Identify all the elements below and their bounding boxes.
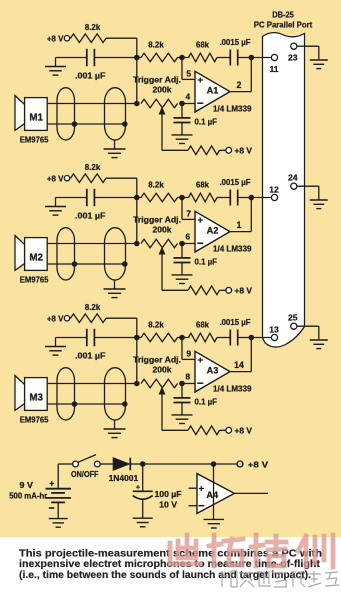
wire A4 output — [234, 492, 268, 494]
junction filter cap — [140, 461, 146, 467]
pin A4 inverting stub — [189, 505, 198, 507]
svg-text:.0015 µF: .0015 µF — [220, 38, 251, 47]
wire supply corner M1 channel — [106, 37, 137, 39]
capacitor 0.1uF M1 channel — [181, 104, 183, 118]
wire cap to output node M1 channel — [238, 57, 252, 59]
svg-text:9: 9 — [186, 348, 191, 358]
wire cap to output node M2 channel — [238, 197, 252, 199]
svg-text:+8 V: +8 V — [47, 314, 64, 324]
svg-text:8.2k: 8.2k — [148, 180, 164, 190]
wire plus-input riser M3 channel — [181, 338, 183, 360]
ground pin 23 — [310, 59, 328, 61]
op-amp A1 comparator 1/4 LM339 — [195, 71, 230, 112]
svg-text:.001 µF: .001 µF — [75, 350, 106, 360]
junction plus-input node M3 channel — [179, 335, 185, 341]
pin 1 comparator output wire — [230, 231, 251, 233]
svg-text:2: 2 — [237, 80, 242, 90]
connector J1 DB-25 PC parallel port — [263, 33, 305, 347]
svg-text:4: 4 — [185, 92, 190, 102]
capacitor .001uF M3 channel — [86, 329, 88, 347]
svg-text:M1: M1 — [29, 113, 43, 124]
node +8V wiper pullup M3 channel — [226, 427, 232, 433]
watermark pink characters — [170, 535, 333, 567]
junction output node M2 channel — [249, 195, 255, 201]
wire rail — [143, 463, 214, 465]
capacitor .001uF M1 channel — [86, 49, 88, 67]
svg-text:+8 V: +8 V — [47, 34, 64, 44]
svg-text:500 mA-hr: 500 mA-hr — [9, 490, 48, 500]
wire mic return lead M2 channel — [47, 263, 125, 265]
svg-text:+: + — [49, 479, 54, 489]
wire output node to parallel port pin 11 — [251, 57, 271, 59]
microphone M3 EM9765 — [15, 376, 25, 411]
resistor wiper pullup M1 channel — [188, 146, 219, 155]
resistor 68k M2 channel — [189, 193, 218, 202]
svg-text:A2: A2 — [207, 226, 219, 236]
svg-text:68k: 68k — [196, 40, 209, 50]
wire pin 24 to ground — [297, 185, 319, 187]
wire output node to parallel port pin 12 — [251, 197, 271, 199]
svg-text:+8 V: +8 V — [47, 174, 64, 184]
node +8V wiper pullup M2 channel — [226, 287, 232, 293]
cable shield 2 M3 channel — [105, 368, 126, 420]
svg-text:68k: 68k — [196, 180, 209, 190]
junction shield 2 M1 channel — [122, 121, 128, 127]
svg-text:Trigger Adj.: Trigger Adj. — [133, 75, 181, 85]
resistor wiper pullup M3 channel — [188, 426, 219, 435]
svg-text:+8 V: +8 V — [235, 286, 253, 296]
ground 0.1uF M3 channel — [172, 414, 193, 416]
svg-text:+8 V: +8 V — [248, 459, 269, 469]
svg-text:8.2k: 8.2k — [85, 22, 101, 32]
ground cap .001uF M3 channel — [45, 346, 66, 348]
wire shield to ground M2 channel — [114, 280, 116, 289]
junction shield 2 M2 channel — [122, 261, 128, 267]
junction shield 1 M1 channel — [72, 121, 78, 127]
junction bias node M3 channel — [134, 335, 140, 341]
junction shield 2 M3 channel — [122, 401, 128, 407]
pin 11 parallel port — [271, 54, 277, 60]
wire mic return lead M1 channel — [47, 123, 125, 125]
cable shield 1 M1 channel — [57, 88, 75, 140]
resistor 8.2k series M1 channel — [141, 53, 177, 62]
capacitor C1 100uF 10V — [142, 464, 144, 491]
svg-text:25: 25 — [288, 312, 298, 322]
battery B1 9V 500mA-hr — [46, 489, 72, 503]
wire minus input M1 channel — [182, 103, 195, 105]
svg-text:14: 14 — [234, 360, 244, 370]
svg-text:5: 5 — [186, 68, 191, 78]
svg-text:23: 23 — [288, 52, 298, 62]
resistor 8.2k supply M3 channel — [71, 314, 107, 323]
svg-text:.001 µF: .001 µF — [75, 70, 106, 80]
wire rail to +8V node — [214, 463, 238, 465]
wire mic hot lead M1 channel — [47, 103, 137, 105]
svg-text:+: + — [198, 74, 204, 85]
microphone M1 EM9765 — [15, 96, 25, 131]
op-amp A3 comparator 1/4 LM339 — [195, 351, 230, 392]
resistor 8.2k supply M1 channel — [71, 34, 107, 43]
ground battery — [49, 518, 68, 520]
capacitor 0.1uF M2 channel — [181, 244, 183, 258]
wire wiper to pullup resistor M1 channel — [162, 149, 188, 151]
capacitor .0015uF M1 channel — [229, 50, 231, 66]
wire cap to bias node M3 channel — [94, 337, 136, 339]
svg-text:DB-25: DB-25 — [272, 10, 294, 20]
svg-text:8.2k: 8.2k — [85, 302, 101, 312]
wire switch to diode — [100, 463, 113, 465]
ground cable shield M2 channel — [104, 288, 126, 290]
wire wiper to pullup resistor M2 channel — [162, 289, 188, 291]
svg-text:M3: M3 — [29, 393, 43, 404]
wire cap to bias node M1 channel — [94, 57, 136, 59]
wire shield to ground M1 channel — [114, 140, 116, 149]
pot wiper arrow M2 channel — [161, 254, 163, 291]
svg-text:A1: A1 — [207, 86, 219, 96]
wire A4 V+ and V- pins — [213, 464, 215, 519]
ground filter cap — [133, 517, 153, 519]
svg-text:+: + — [136, 483, 141, 492]
ground A4 — [204, 518, 225, 520]
junction pot right M1 channel — [179, 101, 185, 107]
cable shield 1 M3 channel — [57, 368, 75, 420]
svg-text:1N4001: 1N4001 — [109, 474, 139, 483]
junction shield 1 M2 channel — [72, 261, 78, 267]
svg-text:68k: 68k — [196, 320, 209, 330]
node +8V output — [237, 461, 243, 467]
svg-text:+: + — [198, 354, 204, 365]
svg-text:8.2k: 8.2k — [148, 40, 164, 50]
ground 0.1uF M2 channel — [172, 274, 193, 276]
wire output node to parallel port pin 13 — [251, 337, 271, 339]
svg-text:1/4 LM339: 1/4 LM339 — [213, 243, 252, 253]
wire cap to output node M3 channel — [238, 337, 252, 339]
ground cable shield M1 channel — [104, 148, 126, 150]
junction bias node M2 channel — [134, 195, 140, 201]
wire cap to ground M2 channel — [181, 263, 183, 275]
junction pot left M1 channel — [134, 101, 140, 107]
wire supply corner M2 channel — [106, 177, 137, 179]
wire cap to bias node M2 channel — [94, 197, 136, 199]
resistor wiper pullup M2 channel — [188, 286, 219, 295]
svg-text:EM9765: EM9765 — [20, 275, 49, 285]
watermark gray characters — [222, 571, 339, 587]
wire +8V to resistor M3 channel — [69, 317, 72, 319]
pin 14 comparator output wire — [230, 371, 251, 373]
junction output node M3 channel — [249, 335, 255, 341]
wire minus input M2 channel — [182, 243, 195, 245]
pin 25 parallel port — [291, 323, 297, 329]
svg-text:6: 6 — [185, 232, 190, 242]
svg-text:(i.e., time between the sounds: (i.e., time between the sounds of launch… — [19, 570, 311, 581]
ground 0.1uF M1 channel — [172, 134, 193, 136]
cable shield 1 M2 channel — [57, 228, 75, 280]
pin 23 parallel port — [291, 43, 297, 49]
wire mic return lead M3 channel — [47, 403, 125, 405]
pin 13 parallel port — [271, 334, 277, 340]
op-amp A2 comparator 1/4 LM339 — [195, 211, 230, 252]
svg-text:10 V: 10 V — [159, 500, 177, 510]
junction pot right M3 channel — [179, 381, 185, 387]
svg-text:0.1 µF: 0.1 µF — [195, 257, 218, 267]
svg-text:Trigger Adj.: Trigger Adj. — [133, 355, 181, 365]
resistor 8.2k supply M2 channel — [71, 174, 107, 183]
op-amp A4 1/4 LM339 — [197, 474, 234, 514]
svg-text:1: 1 — [237, 220, 242, 230]
capacitor .0015uF M3 channel — [229, 330, 231, 346]
wire mic hot lead M2 channel — [47, 243, 137, 245]
wire mic hot lead M3 channel — [47, 383, 137, 385]
wire cap to ground M3 channel — [56, 337, 87, 339]
potentiometer Trigger Adj 200k M3 channel — [141, 379, 177, 388]
capacitor 0.1uF M3 channel — [181, 384, 183, 398]
junction pot left M3 channel — [134, 381, 140, 387]
ground pin 24 — [310, 199, 328, 201]
svg-text:200k: 200k — [153, 85, 172, 95]
wire cap to ground M2 channel — [56, 197, 87, 199]
svg-text:EM9765: EM9765 — [20, 135, 49, 145]
potentiometer Trigger Adj 200k M2 channel — [141, 239, 177, 248]
resistor 8.2k series M3 channel — [141, 333, 177, 342]
svg-text:11: 11 — [269, 64, 278, 74]
svg-text:200k: 200k — [153, 225, 172, 235]
svg-text:24: 24 — [288, 172, 298, 182]
svg-text:Trigger Adj.: Trigger Adj. — [133, 215, 181, 225]
capacitor .0015uF M2 channel — [229, 190, 231, 206]
svg-text:100 µF: 100 µF — [155, 489, 182, 499]
wire pin 25 to ground — [297, 325, 319, 327]
wire battery to ground — [57, 502, 59, 518]
svg-text:.0015 µF: .0015 µF — [220, 178, 251, 187]
wire plus-input riser M2 channel — [181, 198, 183, 220]
wire cap to ground M1 channel — [56, 57, 87, 59]
junction bias node M1 channel — [134, 55, 140, 61]
wire +8V to resistor M1 channel — [69, 37, 72, 39]
svg-text:1/4 LM339: 1/4 LM339 — [213, 103, 252, 113]
wire cap to ground M3 channel — [181, 403, 183, 415]
wire wiper to pullup resistor M3 channel — [162, 429, 188, 431]
svg-text:8: 8 — [185, 372, 190, 382]
svg-text:+: + — [199, 483, 205, 494]
svg-text:+: + — [198, 214, 204, 225]
wire minus input M3 channel — [182, 383, 195, 385]
svg-text:.001 µF: .001 µF — [75, 210, 106, 220]
wire battery to switch — [57, 464, 59, 489]
junction plus-input node M1 channel — [179, 55, 185, 61]
svg-text:0.1 µF: 0.1 µF — [195, 397, 218, 407]
svg-text:PC Parallel Port: PC Parallel Port — [254, 20, 313, 30]
wire pin 23 to ground — [297, 45, 319, 47]
svg-text:0.1 µF: 0.1 µF — [195, 117, 218, 127]
svg-text:8.2k: 8.2k — [85, 162, 101, 172]
junction output node M1 channel — [249, 55, 255, 61]
pin 2 comparator output wire — [230, 91, 251, 93]
svg-text:+8 V: +8 V — [235, 146, 253, 156]
svg-text:200k: 200k — [153, 365, 172, 375]
svg-text:8.2k: 8.2k — [148, 320, 164, 330]
svg-text:1/4 LM339: 1/4 LM339 — [213, 383, 252, 393]
ground pin 25 — [310, 339, 328, 341]
junction A4 supply — [211, 461, 217, 467]
resistor 68k M1 channel — [189, 53, 218, 62]
pin 12 parallel port — [271, 194, 277, 200]
svg-text:.0015 µF: .0015 µF — [220, 318, 251, 327]
cable shield 2 M2 channel — [105, 228, 126, 280]
svg-text:EM9765: EM9765 — [20, 415, 49, 425]
potentiometer Trigger Adj 200k M1 channel — [141, 99, 177, 108]
cable shield 2 M1 channel — [105, 88, 126, 140]
wire diode to rail — [130, 463, 142, 465]
junction plus-input node M2 channel — [179, 195, 185, 201]
svg-text:A3: A3 — [207, 366, 219, 376]
svg-text:A4: A4 — [206, 490, 219, 500]
pot wiper arrow M1 channel — [161, 114, 163, 151]
ground cap .001uF M1 channel — [45, 66, 66, 68]
junction pot right M2 channel — [179, 241, 185, 247]
pin 24 parallel port — [291, 183, 297, 189]
capacitor .001uF M2 channel — [86, 189, 88, 207]
junction pot left M2 channel — [134, 241, 140, 247]
ground cable shield M3 channel — [104, 428, 126, 430]
wire supply corner M3 channel — [106, 317, 137, 319]
svg-text:13: 13 — [269, 324, 279, 334]
junction shield 1 M3 channel — [72, 401, 78, 407]
wire shield to ground M3 channel — [114, 420, 116, 429]
microphone M2 EM9765 — [15, 236, 25, 271]
diode D1 1N4001 — [113, 458, 129, 471]
svg-text:12: 12 — [269, 184, 279, 194]
label battery minus — [49, 507, 54, 509]
pin A4 noninverting stub — [189, 487, 198, 489]
resistor 8.2k series M2 channel — [141, 193, 177, 202]
svg-text:ON/OFF: ON/OFF — [71, 470, 99, 479]
switch S1 ON/OFF — [73, 461, 79, 467]
svg-text:9 V: 9 V — [20, 480, 34, 490]
wire +8V to resistor M2 channel — [69, 177, 72, 179]
node +8V wiper pullup M1 channel — [226, 147, 232, 153]
wire plus-input riser M1 channel — [181, 58, 183, 80]
svg-text:M2: M2 — [29, 253, 43, 264]
pot wiper arrow M3 channel — [161, 394, 163, 431]
svg-text:7: 7 — [186, 208, 191, 218]
svg-text:+8 V: +8 V — [235, 426, 253, 436]
ground cap .001uF M2 channel — [45, 206, 66, 208]
wire cap to ground M1 channel — [181, 123, 183, 135]
wire cap to ground — [142, 500, 144, 519]
resistor 68k M3 channel — [189, 333, 218, 342]
